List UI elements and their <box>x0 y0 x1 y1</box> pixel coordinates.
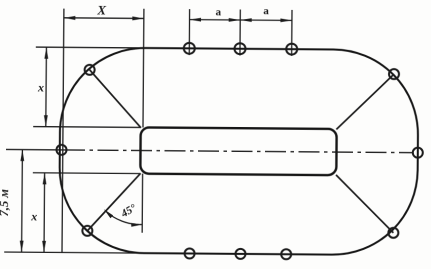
svg-text:a: a <box>215 6 221 18</box>
svg-text:a: a <box>263 5 269 17</box>
svg-text:7,5 м: 7,5 м <box>0 189 11 217</box>
svg-text:x: x <box>37 80 44 94</box>
svg-text:x: x <box>30 209 37 223</box>
svg-text:X: X <box>96 2 106 17</box>
